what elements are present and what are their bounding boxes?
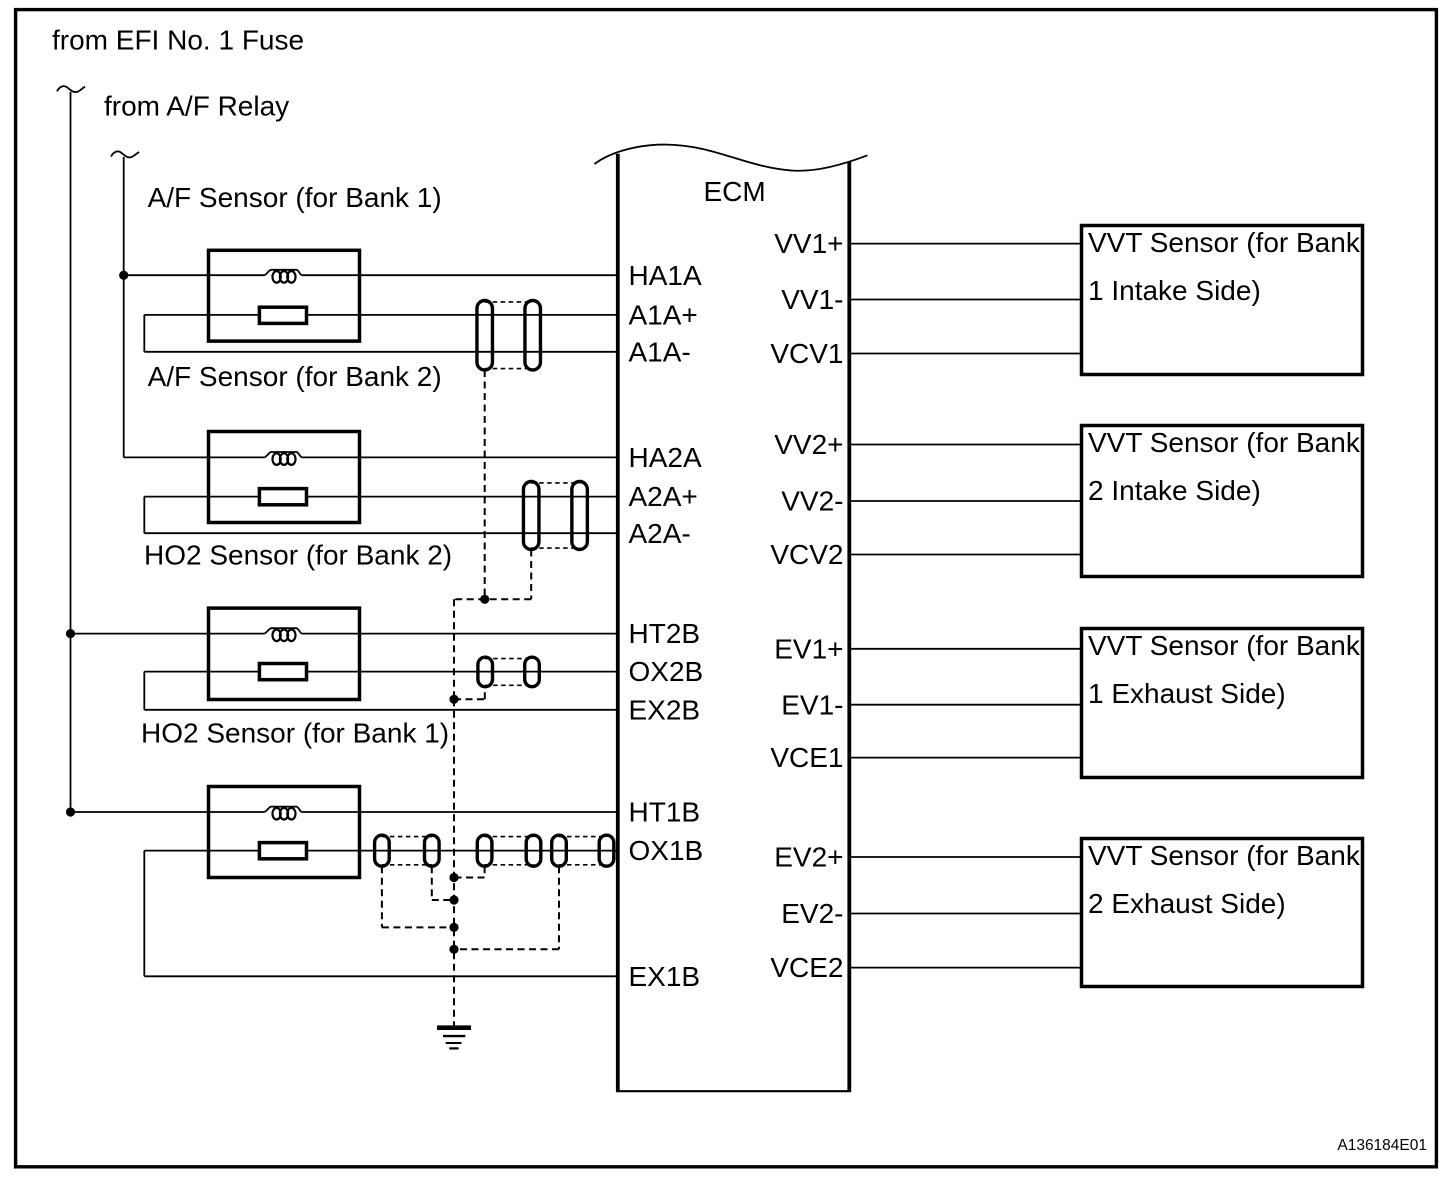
wire break symbol (EFI fuse feed) xyxy=(57,86,85,92)
wire HT2B xyxy=(71,633,265,635)
connector capsule A2A pair left xyxy=(523,482,539,550)
wire: A/F Relay vertical bus xyxy=(123,157,125,457)
shield dashed box OX1B pair 2 xyxy=(485,836,534,838)
sensor element (HO2 Bank 1) xyxy=(259,843,306,859)
svg-text:VV2-: VV2- xyxy=(781,486,843,517)
svg-text:VCV2: VCV2 xyxy=(770,539,843,570)
connector capsule OX2B pair right xyxy=(525,657,540,687)
junction: shield drain OX2B xyxy=(449,695,458,704)
ECM bottom edge xyxy=(616,1090,851,1092)
wire EV1- to VVT sensor xyxy=(849,704,1081,706)
heater coil (A/F sensor Bank 2) xyxy=(264,452,301,465)
wire EX2B xyxy=(144,709,618,711)
svg-text:VCE1: VCE1 xyxy=(770,742,843,773)
wire A2A+ xyxy=(144,496,259,498)
VVT sensor (Bank 1 Exhaust) box xyxy=(1082,629,1363,778)
wire VCV2 to VVT sensor xyxy=(849,554,1081,556)
wire A1A- xyxy=(144,351,618,353)
svg-text:A/F Sensor (for Bank 2): A/F Sensor (for Bank 2) xyxy=(148,361,442,392)
sensor element (A/F Bank 1) xyxy=(259,307,306,323)
svg-text:from EFI No. 1 Fuse: from EFI No. 1 Fuse xyxy=(52,25,304,56)
heater coil (HO2 sensor Bank 2) xyxy=(264,628,301,641)
svg-text:VVT Sensor (for Bank: VVT Sensor (for Bank xyxy=(1088,227,1361,258)
wire VV2+ to VVT sensor xyxy=(849,444,1081,446)
junction: shield drain A1A/A2A xyxy=(480,595,489,604)
HO2 sensor (for Bank 1) box xyxy=(209,787,360,878)
wire EX1B xyxy=(144,975,618,977)
sensor element (HO2 Bank 2) xyxy=(259,664,306,680)
svg-text:ECM: ECM xyxy=(704,176,766,207)
wire VV1- to VVT sensor xyxy=(849,299,1081,301)
VVT sensor (Bank 2 Exhaust) box xyxy=(1082,839,1363,987)
svg-text:EV2+: EV2+ xyxy=(774,842,843,873)
wire VV1+ to VVT sensor xyxy=(849,243,1081,245)
svg-text:VV2+: VV2+ xyxy=(774,429,843,460)
connector capsule A2A pair right xyxy=(572,482,588,550)
shield drain horizontal at y=699 xyxy=(454,698,485,700)
A/F sensor (for Bank 1) box xyxy=(209,250,360,341)
svg-text:HA1A: HA1A xyxy=(629,260,702,291)
shield drain trunk lower to ground xyxy=(453,699,455,1026)
wire break symbol (A/F relay feed) xyxy=(111,151,139,157)
wire VCE2 to VVT sensor xyxy=(849,967,1081,969)
ECM left edge xyxy=(616,154,620,1092)
junction: relay bus / HA1A xyxy=(119,271,128,280)
svg-text:EX2B: EX2B xyxy=(629,694,701,725)
svg-text:VVT Sensor (for Bank: VVT Sensor (for Bank xyxy=(1088,630,1361,661)
wire OX2B xyxy=(144,671,259,673)
shield drain OX2B riser xyxy=(484,687,486,700)
svg-text:A1A+: A1A+ xyxy=(629,300,698,331)
svg-text:HO2 Sensor (for Bank 1): HO2 Sensor (for Bank 1) xyxy=(141,718,449,749)
wire EV1+ to VVT sensor xyxy=(849,648,1081,650)
svg-text:A1A-: A1A- xyxy=(629,336,691,367)
wire VV2- to VVT sensor xyxy=(849,500,1081,502)
svg-text:OX1B: OX1B xyxy=(629,835,704,866)
svg-text:VCV1: VCV1 xyxy=(770,338,843,369)
svg-text:EV1+: EV1+ xyxy=(774,633,843,664)
shield dashed box A1A xyxy=(485,301,533,303)
wire OX1B xyxy=(144,850,259,852)
svg-text:HA2A: HA2A xyxy=(629,442,702,473)
wire: EFI No.1 Fuse vertical bus xyxy=(70,92,72,812)
VVT sensor (Bank 2 Intake) box xyxy=(1082,426,1363,577)
shield drain A1A vertical xyxy=(484,370,486,599)
wire EV2+ to VVT sensor xyxy=(849,856,1081,858)
connector capsule OX1B #3 xyxy=(477,835,492,866)
wire: OX2B loop vertical xyxy=(143,672,145,710)
shield drain trunk upper xyxy=(453,599,455,699)
svg-text:HT2B: HT2B xyxy=(629,618,701,649)
svg-text:EX1B: EX1B xyxy=(629,961,701,992)
wire A1A+ xyxy=(144,314,259,316)
shield dashed box A2A xyxy=(531,482,579,484)
junction: drain OX1B c5 xyxy=(449,945,458,954)
junction: fuse bus / HT2B xyxy=(66,629,75,638)
junction: fuse bus / HT1B xyxy=(66,807,75,816)
svg-text:VVT Sensor (for Bank: VVT Sensor (for Bank xyxy=(1088,840,1361,871)
ground xyxy=(437,1025,471,1030)
A/F sensor (for Bank 2) box xyxy=(209,432,360,523)
wire HA1A xyxy=(124,274,265,276)
wire A2A- xyxy=(144,532,618,534)
connector capsule OX1B #2 xyxy=(425,835,440,866)
svg-text:VV1+: VV1+ xyxy=(774,228,843,259)
svg-text:A2A-: A2A- xyxy=(629,518,691,549)
svg-text:VCE2: VCE2 xyxy=(770,952,843,983)
shield dashed box OX2B xyxy=(485,658,532,660)
junction: drain OX1B c3 xyxy=(449,873,458,882)
sensor element (A/F Bank 2) xyxy=(259,489,306,505)
svg-text:2 Intake Side): 2 Intake Side) xyxy=(1088,475,1261,506)
connector capsule OX1B #5 xyxy=(552,835,567,866)
shield dashed box OX1B pair 1 xyxy=(382,836,432,838)
wire VCV1 to VVT sensor xyxy=(849,353,1081,355)
svg-text:HO2 Sensor (for Bank 2): HO2 Sensor (for Bank 2) xyxy=(144,540,452,571)
wire HT1B xyxy=(71,811,265,813)
wire HA2A xyxy=(124,456,265,458)
shield drain OX1B capsule2 xyxy=(431,866,433,900)
connector capsule A1A pair left xyxy=(477,301,493,371)
svg-text:EV2-: EV2- xyxy=(781,898,843,929)
svg-text:VVT Sensor (for Bank: VVT Sensor (for Bank xyxy=(1088,427,1361,458)
junction: drain OX1B c2 xyxy=(449,895,458,904)
svg-text:from A/F Relay: from A/F Relay xyxy=(104,91,289,122)
wire: OX1B loop vertical xyxy=(143,851,145,977)
junction: drain OX1B c1 xyxy=(449,923,458,932)
svg-text:EV1-: EV1- xyxy=(781,689,843,720)
shield dashed box OX1B pair 3 xyxy=(559,836,607,838)
shield drain horizontal joint at y=599 xyxy=(454,598,531,600)
connector capsule OX1B #6 xyxy=(599,835,614,866)
VVT sensor (Bank 1 Intake) box xyxy=(1082,226,1363,375)
connector capsule OX1B #4 xyxy=(526,835,541,866)
svg-text:A/F Sensor (for Bank 1): A/F Sensor (for Bank 1) xyxy=(148,182,442,213)
ECM right edge xyxy=(847,162,851,1092)
HO2 sensor (for Bank 2) box xyxy=(209,608,360,699)
svg-text:A2A+: A2A+ xyxy=(629,481,698,512)
ECM wavy top edge xyxy=(595,145,868,171)
connector capsule OX1B #1 xyxy=(375,835,390,866)
wire EV2- to VVT sensor xyxy=(849,913,1081,915)
wire: A2A loop vertical xyxy=(143,497,145,534)
svg-text:2 Exhaust Side): 2 Exhaust Side) xyxy=(1088,888,1286,919)
shield drain A2A vertical xyxy=(530,550,532,600)
connector capsule OX2B pair left xyxy=(478,657,493,687)
svg-text:A136184E01: A136184E01 xyxy=(1337,1137,1427,1154)
connector capsule A1A pair right xyxy=(525,301,541,371)
wire: A1A loop vertical xyxy=(143,315,145,352)
svg-text:VV1-: VV1- xyxy=(781,284,843,315)
heater coil (A/F sensor Bank 1) xyxy=(264,270,301,283)
shield drain OX1B capsule1 xyxy=(381,866,383,927)
svg-text:1 Intake Side): 1 Intake Side) xyxy=(1088,275,1261,306)
wire VCE1 to VVT sensor xyxy=(849,757,1081,759)
shield drain OX1B capsule5 xyxy=(558,866,560,949)
shield drain OX1B capsule3 xyxy=(484,866,486,877)
heater coil (HO2 sensor Bank 1) xyxy=(264,807,301,820)
svg-text:OX2B: OX2B xyxy=(629,656,704,687)
svg-text:HT1B: HT1B xyxy=(629,797,701,828)
svg-text:1 Exhaust Side): 1 Exhaust Side) xyxy=(1088,678,1286,709)
